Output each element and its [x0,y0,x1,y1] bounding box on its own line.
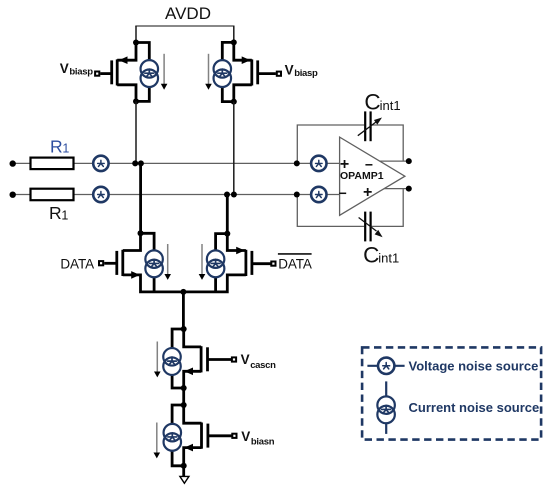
svg-text:int1: int1 [378,251,399,266]
svg-text:V: V [285,63,294,78]
svg-text:biasn: biasn [251,437,275,448]
svg-text:R: R [50,136,63,156]
svg-text:V: V [241,352,250,367]
svg-text:1: 1 [62,142,69,156]
svg-text:−: − [339,185,347,201]
svg-text:DATA: DATA [60,256,94,271]
svg-text:int1: int1 [380,98,401,113]
svg-text:DATA: DATA [278,257,312,272]
svg-text:C: C [364,90,380,115]
svg-text:biasp: biasp [294,68,318,79]
svg-text:AVDD: AVDD [165,4,211,23]
svg-text:+: + [363,184,372,201]
svg-text:Voltage noise source: Voltage noise source [409,358,539,373]
svg-text:C: C [363,242,379,267]
svg-text:V: V [241,429,250,444]
svg-text:R: R [49,203,62,223]
svg-text:cascn: cascn [250,360,276,371]
svg-text:OPAMP1: OPAMP1 [340,170,384,182]
svg-text:Current noise source: Current noise source [409,400,540,415]
svg-text:biasp: biasp [69,67,93,78]
svg-text:V: V [60,61,69,76]
svg-text:1: 1 [61,208,68,222]
